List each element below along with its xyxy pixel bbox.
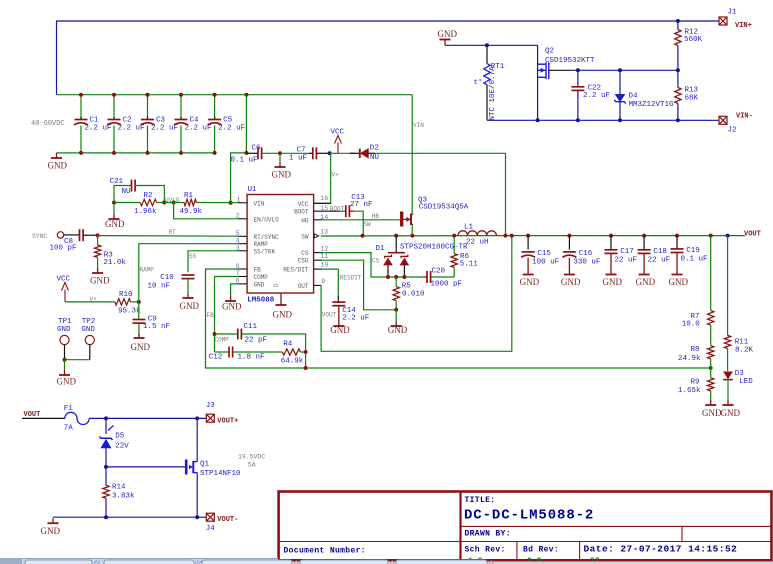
titleblock inner lines [279, 526, 772, 559]
capacitor C3 [141, 95, 179, 153]
svg-text:10.0: 10.0 [682, 321, 701, 329]
titleblock cropped green revision text [468, 557, 600, 564]
power VCC arrow [335, 136, 342, 154]
svg-text:J2: J2 [728, 127, 737, 135]
connector J4 [206, 513, 214, 521]
svg-text:12: 12 [321, 245, 329, 252]
junction C2 bottom [112, 151, 116, 155]
junction D1 top on SW rail [394, 234, 398, 238]
svg-text:TP2: TP2 [82, 318, 96, 326]
wire SW rail [321, 235, 506, 237]
svg-text:SYNC: SYNC [32, 233, 48, 240]
junction C1 bottom [79, 151, 83, 155]
svg-text:RT: RT [169, 229, 177, 236]
ground C19 [672, 270, 683, 275]
wire VIN to Q3 drain [411, 95, 413, 215]
junction C4 top [179, 93, 183, 97]
capacitor C16 [562, 236, 600, 270]
junction C15 top [526, 234, 530, 238]
capacitor C15 [521, 236, 559, 270]
junction C6/C7 GND node [278, 151, 282, 155]
svg-text:CS: CS [372, 258, 380, 265]
svg-text:C20: C20 [432, 267, 446, 275]
junction VIN drop to C6 node [244, 93, 248, 97]
junction FB divider node [709, 366, 713, 370]
diode D1 STPS20H100CG-TR dual schottky [376, 236, 469, 277]
junction D1 right anode [402, 275, 406, 279]
svg-text:C12: C12 [209, 354, 223, 362]
svg-text:10 nF: 10 nF [148, 283, 171, 291]
junction R12/R13 mid node [676, 68, 680, 72]
junction R7 top on rail [709, 234, 713, 238]
junction R5 bottom [394, 308, 398, 312]
svg-text:COMP: COMP [215, 337, 230, 344]
junction R14 bottom [104, 515, 108, 519]
wire C11/R4 node down to FB run [305, 352, 307, 368]
ground TP node [64, 360, 66, 370]
svg-text:VOUT: VOUT [322, 311, 337, 318]
svg-text:GND: GND [721, 408, 741, 418]
zener D4 MM3Z12VT1G [614, 70, 674, 120]
svg-text:NTC 10E/0.7A: NTC 10E/0.7A [489, 66, 497, 121]
svg-text:C4: C4 [190, 117, 200, 125]
svg-text:C7: C7 [297, 146, 306, 154]
svg-text:GND: GND [603, 277, 623, 287]
svg-text:D1: D1 [376, 245, 386, 253]
svg-text:OUT: OUT [298, 283, 309, 290]
svg-text:2.2 uF: 2.2 uF [118, 124, 145, 132]
svg-text:D3: D3 [735, 370, 745, 378]
svg-text:CSD19534Q5A: CSD19534Q5A [419, 204, 469, 212]
svg-text:LED: LED [739, 378, 753, 386]
junction D4 top [618, 68, 622, 72]
capacitor C20 [424, 267, 463, 288]
inductor L1 [458, 224, 496, 247]
svg-text:FB: FB [207, 312, 215, 319]
svg-text:C2: C2 [123, 117, 132, 125]
svg-text:MM3Z12VT1G: MM3Z12VT1G [629, 101, 675, 109]
svg-text:VCC: VCC [298, 201, 309, 208]
wire RES/DIT from pin 10 to C14 [322, 269, 338, 295]
wire RAMP from pin 4 [139, 244, 239, 302]
svg-text:J1: J1 [728, 9, 738, 17]
capacitor C22 [571, 70, 610, 120]
svg-text:L1: L1 [464, 224, 474, 232]
svg-text:1.65k: 1.65k [678, 387, 701, 395]
taskbar tabs [25, 560, 495, 564]
resistor R13 [675, 70, 699, 120]
svg-text:CSG: CSG [298, 258, 309, 265]
svg-text:SW: SW [301, 234, 309, 241]
junction R11 top on rail [726, 234, 730, 238]
junction D4 bottom [618, 118, 622, 122]
svg-text:Sch Rev:: Sch Rev: [465, 546, 506, 555]
junction C19 top [675, 234, 679, 238]
svg-text:C17: C17 [620, 248, 634, 256]
svg-text:40-60VDC: 40-60VDC [31, 120, 65, 128]
junction C3 top [146, 93, 150, 97]
ic U1 right pin leads [314, 203, 340, 285]
junction C22 bottom [576, 118, 580, 122]
svg-text:GND: GND [702, 408, 722, 418]
svg-text:Bd Rev:: Bd Rev: [523, 546, 559, 555]
svg-text:t°: t° [474, 78, 483, 87]
junction C21 left / GND node [112, 201, 116, 205]
ground C10 [183, 293, 194, 298]
svg-text:100 uF: 100 uF [532, 259, 559, 267]
resistor R5 [393, 277, 425, 310]
junction C5 top [213, 93, 217, 97]
svg-text:GND: GND [180, 301, 200, 311]
wire Q1 drain [196, 418, 198, 461]
resistor R12 [675, 21, 703, 70]
junction D5 top [104, 416, 108, 420]
capacitor C13 bootstrap [339, 194, 372, 236]
junction D5/R14/Q1-gate node [104, 465, 108, 469]
fuse F1 [64, 405, 89, 433]
capacitor C18 [638, 236, 671, 270]
ground C17 [606, 270, 617, 275]
wire VIN- bottom rail [487, 119, 719, 121]
svg-text:VIN+: VIN+ [735, 22, 752, 30]
junction C22 top [576, 68, 580, 72]
svg-text:R4: R4 [283, 341, 293, 349]
junction C18 top [642, 234, 646, 238]
svg-text:49.9k: 49.9k [180, 208, 203, 216]
svg-text:GND: GND [81, 326, 95, 334]
svg-text:2.2 uF: 2.2 uF [151, 124, 178, 132]
junction C16 top [567, 234, 571, 238]
wire VIN+ input from J1 along top [57, 21, 720, 95]
svg-text:SW: SW [363, 221, 371, 228]
ground C16 [564, 270, 575, 275]
junction VCC node [328, 151, 332, 155]
svg-text:C21: C21 [110, 178, 124, 186]
svg-text:C15: C15 [537, 250, 551, 258]
junction EN tap [172, 201, 176, 205]
junction Q2 source on VIN- rail [536, 118, 540, 122]
svg-text:C5: C5 [223, 117, 233, 125]
wire GND to RT1 and Q2 gate-line [445, 44, 538, 46]
svg-text:R5: R5 [402, 282, 412, 290]
svg-text:22 uF: 22 uF [648, 257, 671, 265]
resistor R3 [94, 235, 126, 268]
capacitor C10 [148, 274, 195, 293]
svg-text:STP14NF10: STP14NF10 [200, 470, 241, 478]
svg-text:VOUT+: VOUT+ [217, 417, 238, 425]
svg-text:GND: GND [57, 326, 71, 334]
svg-text:1.8 nF: 1.8 nF [238, 354, 265, 362]
svg-text:GND: GND [105, 219, 125, 229]
ground C14 [333, 321, 344, 326]
svg-text:VIN-: VIN- [736, 112, 753, 120]
capacitor C7 [280, 146, 330, 162]
junction Q1 source bottom [195, 515, 199, 519]
junction R10/C9/RAMP node [137, 300, 141, 304]
svg-text:CS: CS [301, 250, 309, 257]
svg-text:GND: GND [273, 310, 293, 320]
svg-text:C18: C18 [653, 248, 667, 256]
wire Q1 source [196, 473, 198, 518]
capacitor C21 (NU) [110, 178, 165, 203]
svg-text:R2: R2 [144, 192, 153, 200]
junction on FB run [304, 366, 308, 370]
port SYNC circle [57, 232, 63, 238]
svg-text:D: D [273, 283, 280, 287]
wire Q3 source to SW rail [411, 224, 413, 235]
junction D1 left anode [386, 275, 390, 279]
svg-text:2.2 uF: 2.2 uF [583, 92, 610, 100]
capacitor C2 [107, 95, 145, 153]
svg-text:22 pF: 22 pF [245, 337, 268, 345]
svg-text:15: 15 [320, 205, 328, 212]
diode D2 (NU) [350, 145, 379, 162]
junction U1 pin1 VIN node [229, 201, 233, 205]
svg-text:SS: SS [189, 253, 197, 260]
svg-text:22V: 22V [115, 443, 129, 451]
ground flipped GND at Q2 gate network [440, 40, 451, 46]
wire R1 to U1 pin1 [196, 202, 238, 204]
svg-text:2.2 uF: 2.2 uF [218, 124, 245, 132]
titleblock outer border [279, 492, 772, 561]
ic U1 LM5088 body [247, 195, 314, 294]
ground input GND [51, 153, 62, 158]
svg-text:VIN: VIN [413, 122, 424, 129]
wire VIN+ rail to input caps and Q3 drain [57, 94, 413, 96]
svg-text:SS/TRK: SS/TRK [254, 248, 276, 255]
svg-text:GND: GND [388, 325, 408, 335]
svg-text:V+: V+ [332, 172, 340, 179]
svg-text:GND: GND [636, 277, 656, 287]
svg-text:GND: GND [131, 342, 151, 352]
resistor R8 [678, 346, 714, 368]
junction R5 top [394, 275, 398, 279]
svg-text:R11: R11 [735, 338, 749, 346]
svg-text:HG: HG [301, 217, 309, 224]
svg-text:0.010: 0.010 [402, 291, 425, 299]
power VCC arrow left [62, 283, 69, 302]
junction BOOT drop on SW rail [361, 234, 365, 238]
svg-text:330 uF: 330 uF [573, 259, 600, 267]
svg-text:9: 9 [321, 278, 325, 285]
svg-text:GND: GND [438, 29, 458, 39]
resistor R6 [451, 236, 478, 277]
svg-text:1000 pF: 1000 pF [431, 281, 463, 289]
junction C11/R4 node [304, 350, 308, 354]
junction C5 bottom [213, 151, 217, 155]
svg-text:VIN: VIN [254, 200, 265, 207]
ic U1 left pin names [254, 200, 280, 288]
svg-text:BOOT: BOOT [294, 209, 309, 216]
capacitor C8 [50, 229, 98, 252]
transistor Q1 STP14NF10 [186, 460, 241, 479]
svg-text:GND: GND [254, 281, 265, 288]
junction C2 top [112, 93, 116, 97]
svg-text:Q2: Q2 [545, 48, 554, 56]
testpoint TP2 [81, 318, 95, 360]
wire VOUT- bottom rail [53, 516, 206, 518]
svg-text:U1: U1 [248, 186, 258, 194]
svg-text:R7: R7 [691, 313, 700, 321]
transistor Q2 CSD19532KTT [538, 45, 595, 120]
svg-text:R13: R13 [685, 86, 699, 94]
wire SS/TRK from pin 3 to C10 [188, 251, 239, 272]
svg-text:0.1 uF: 0.1 uF [681, 256, 708, 264]
svg-text:DC-DC-LM5088-2: DC-DC-LM5088-2 [464, 508, 594, 524]
svg-text:8.2K: 8.2K [735, 347, 754, 355]
wire VOUT rail [506, 235, 745, 237]
svg-text:DRAWN BY:: DRAWN BY: [465, 530, 511, 539]
svg-text:C19: C19 [686, 247, 700, 255]
svg-text:EN/UVLO: EN/UVLO [254, 216, 280, 223]
wire D2 to VOUT rail (bias feed) [375, 153, 506, 235]
resistor R11 [724, 236, 753, 371]
svg-text:5A: 5A [248, 461, 256, 468]
transistor Q3 CSD19534Q5A [402, 197, 469, 227]
led D3 [723, 370, 753, 400]
svg-text:27 nF: 27 nF [350, 201, 373, 209]
capacitor C4 [174, 95, 212, 153]
wire VOUT sense from pin 9 [321, 236, 512, 352]
wire Q2 gate to C22/D4/R13 node [549, 69, 570, 71]
resistor R4 [281, 341, 306, 366]
svg-text:D2: D2 [370, 145, 379, 153]
resistor R9 [678, 368, 714, 400]
svg-text:GND: GND [57, 377, 77, 387]
ground R9 [705, 400, 716, 405]
svg-text:NU: NU [370, 154, 379, 162]
svg-text:LM5088: LM5088 [247, 297, 275, 305]
svg-text:1.96k: 1.96k [134, 208, 157, 216]
svg-text:GND: GND [561, 277, 581, 287]
svg-text:10: 10 [321, 262, 329, 269]
junction C1 top [79, 93, 83, 97]
svg-text:GND: GND [48, 161, 68, 171]
svg-text:Date: 27-07-2017 14:15:52: Date: 27-07-2017 14:15:52 [584, 544, 738, 555]
svg-text:2.2 uF: 2.2 uF [342, 315, 369, 323]
junction TP gnd [63, 358, 67, 362]
wire mid node to Q2 gate rail [549, 69, 678, 71]
svg-text:GND: GND [520, 277, 540, 287]
wire TP2 to TP1 gnd [65, 359, 90, 361]
ground C9 [134, 333, 145, 338]
svg-text:VCC: VCC [331, 129, 345, 137]
svg-text:RAMP: RAMP [140, 267, 155, 274]
svg-text:7A: 7A [64, 425, 74, 433]
svg-text:R1: R1 [184, 192, 194, 200]
ic U1 right pin numbers [320, 195, 328, 285]
svg-text:Q1: Q1 [200, 460, 210, 468]
svg-text:11: 11 [321, 253, 329, 260]
zener D5 [100, 418, 130, 467]
svg-text:R14: R14 [112, 484, 126, 492]
ground C18 [639, 270, 650, 275]
svg-text:F1: F1 [64, 405, 74, 413]
svg-text:13: 13 [320, 228, 328, 235]
junction R2/R1/C21 node [162, 201, 166, 205]
junction R13 bottom [676, 118, 680, 122]
svg-text:5.11: 5.11 [460, 260, 479, 268]
capacitor C6 [231, 144, 281, 164]
svg-text:COMP: COMP [254, 274, 269, 281]
wire gate node to Q1 [106, 466, 185, 468]
svg-text:GND: GND [272, 170, 292, 180]
junction bias feed on VOUT rail [504, 234, 508, 238]
svg-text:J3: J3 [206, 402, 216, 410]
junction VOUT sense on rail [510, 234, 514, 238]
svg-text:16: 16 [320, 195, 328, 202]
svg-text:NU: NU [122, 188, 131, 196]
resistor R14 [103, 467, 135, 517]
svg-text:RESDIT: RESDIT [340, 274, 362, 281]
svg-text:BOOT: BOOT [330, 205, 345, 212]
junction COMP node [213, 332, 217, 336]
ground C21/R2 node [113, 203, 115, 215]
capacitor C19 [671, 236, 708, 270]
svg-text:560K: 560K [684, 36, 703, 44]
ground pin6 [225, 296, 236, 301]
ic U1 pin 13 output arrow [314, 234, 318, 238]
ic U1 right pin names [283, 201, 309, 290]
resistor R7 [682, 236, 714, 346]
svg-text:TP1: TP1 [58, 318, 72, 326]
junction C4 bottom [179, 151, 183, 155]
svg-text:TITLE:: TITLE: [465, 496, 496, 505]
svg-text:68K: 68K [685, 94, 699, 102]
svg-text:J4: J4 [206, 525, 216, 533]
svg-text:STPS20H100CG-TR: STPS20H100CG-TR [400, 243, 468, 251]
wire VCC to R10 [65, 301, 115, 303]
svg-text:19.5VDC: 19.5VDC [238, 453, 265, 460]
wire VIN to C6/C7/U1 pin1 [231, 95, 247, 203]
junction on VIN+ top wire at R12 [676, 19, 680, 23]
wire CSG from pin 11 [322, 260, 396, 310]
wire EN/UVLO to pin 2 [174, 203, 239, 219]
ground R3 [92, 268, 103, 273]
svg-text:FB: FB [254, 267, 262, 274]
wire VOUT to fuse [22, 417, 65, 419]
svg-text:Document Number:: Document Number: [284, 547, 366, 556]
svg-text:2.2 uF: 2.2 uF [185, 124, 212, 132]
connector J2 [719, 116, 727, 124]
ground C6/C7 node [279, 153, 281, 162]
svg-text:C11: C11 [244, 323, 258, 331]
wire FB net from pin 8 to divider [206, 269, 711, 368]
svg-text:R8: R8 [691, 346, 700, 354]
capacitor C5 [208, 95, 246, 153]
capacitor C14 [332, 296, 369, 323]
junction C8/R3 node [96, 233, 100, 237]
junction C17 top [609, 234, 613, 238]
svg-text:VOUT-: VOUT- [217, 516, 238, 524]
junction Q1 drain top [195, 416, 199, 420]
svg-text:22 uH: 22 uH [466, 238, 489, 246]
connector J3 [206, 414, 214, 422]
capacitor C9 [133, 302, 171, 338]
junction RT1 top [485, 43, 489, 47]
capacitor C17 [605, 236, 638, 270]
svg-text:C1: C1 [90, 117, 100, 125]
junction VIN node at C6 [244, 151, 248, 155]
svg-text:GND: GND [669, 277, 689, 287]
taskbar strip [0, 558, 278, 564]
svg-text:RT/SYNC: RT/SYNC [254, 234, 280, 241]
wire RT/SYNC to pin 5 [98, 235, 239, 238]
svg-text:RAMP: RAMP [254, 241, 269, 248]
ic U1 left pin leads [239, 203, 248, 284]
svg-text:CSD19532KTT: CSD19532KTT [545, 57, 595, 65]
resistor R10 [115, 291, 141, 316]
